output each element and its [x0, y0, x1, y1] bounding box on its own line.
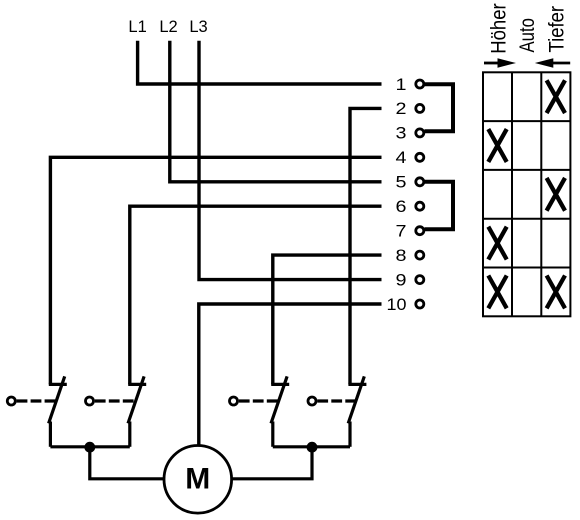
svg-text:3: 3: [396, 124, 407, 143]
svg-text:8: 8: [396, 246, 407, 265]
svg-text:1: 1: [396, 75, 407, 94]
svg-text:5: 5: [396, 173, 407, 192]
svg-text:Tiefer: Tiefer: [546, 6, 569, 53]
svg-text:L3: L3: [189, 18, 207, 36]
svg-text:4: 4: [396, 148, 407, 167]
svg-text:L1: L1: [128, 18, 146, 36]
svg-text:L2: L2: [159, 18, 177, 36]
svg-text:9: 9: [396, 270, 407, 289]
svg-text:6: 6: [396, 197, 407, 216]
svg-text:2: 2: [396, 99, 407, 118]
svg-text:M: M: [185, 463, 210, 496]
svg-text:10: 10: [387, 295, 407, 314]
svg-text:Auto: Auto: [516, 18, 539, 52]
svg-text:Höher: Höher: [488, 3, 511, 54]
svg-text:7: 7: [396, 222, 407, 241]
